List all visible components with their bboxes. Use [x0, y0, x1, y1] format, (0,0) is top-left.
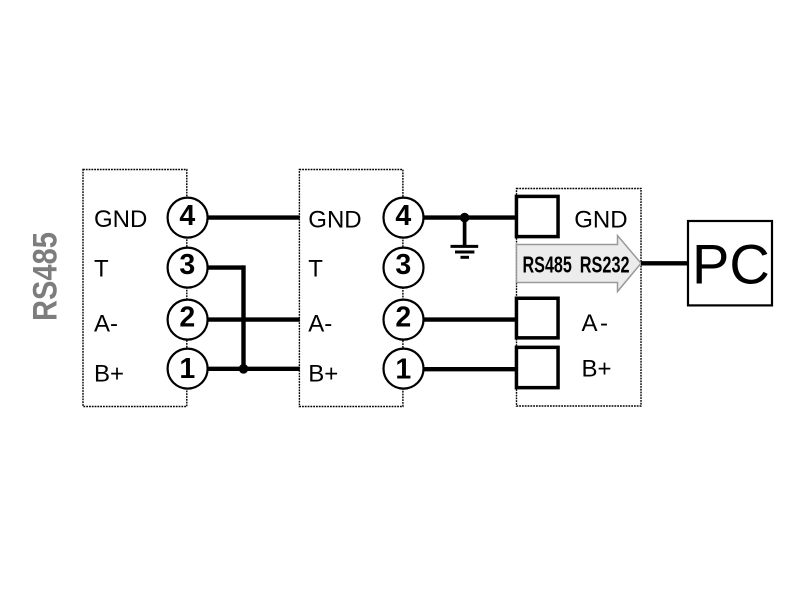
wire J1 pin4 to J2 GND: [206, 215, 300, 219]
svg-text:2: 2: [179, 301, 195, 333]
svg-text:A-: A-: [308, 311, 332, 338]
svg-text:1: 1: [395, 354, 411, 386]
wire J2 pin4 to converter GND pad: [422, 215, 517, 219]
svg-text:3: 3: [395, 249, 411, 281]
svg-text:3: 3: [179, 249, 195, 281]
svg-text:GND: GND: [574, 207, 627, 234]
svg-text:B+: B+: [582, 356, 612, 383]
wire J1 pin2 to J2 A-: [206, 317, 300, 321]
junction dot on B+ net: [239, 364, 249, 374]
pin circle J1-3: [168, 248, 208, 288]
svg-text:RS485: RS485: [26, 232, 64, 321]
svg-text:GND: GND: [308, 207, 361, 234]
svg-text:4: 4: [179, 200, 195, 232]
junction dot at ground tap: [460, 213, 470, 223]
svg-text:2: 2: [395, 301, 411, 333]
wire J2 pin1 to converter B+ pad: [422, 367, 517, 371]
svg-text:B+: B+: [308, 361, 338, 388]
PC box: [688, 221, 772, 305]
connector J2 (RS485 device 2, dashed outline): [299, 170, 403, 407]
pin circle J2-4: [384, 198, 424, 238]
svg-text:RS485: RS485: [523, 252, 573, 278]
pin circle J1-4: [168, 198, 208, 238]
converter B+ terminal pad: [516, 347, 558, 387]
svg-text:PC: PC: [692, 232, 770, 295]
converter GND terminal pad: [516, 196, 558, 236]
svg-text:GND: GND: [94, 206, 147, 233]
svg-text:A-: A-: [94, 311, 118, 338]
svg-text:A-: A-: [582, 310, 611, 337]
wire J1 pin1 to J2 B+: [206, 367, 300, 371]
converter module (dashed outline): [517, 189, 642, 407]
wire J2 pin2 to converter A- pad: [422, 317, 517, 321]
svg-text:T: T: [94, 256, 109, 283]
wire converter to PC: [641, 261, 689, 265]
svg-text:4: 4: [395, 200, 411, 232]
svg-text:T: T: [308, 256, 323, 283]
svg-text:B+: B+: [94, 361, 124, 388]
connector J1 (RS485 device 1, dashed outline): [83, 170, 187, 407]
wire J1 pin3 vertical down to B+ net: [241, 265, 245, 368]
wire J1 pin3 horizontal: [206, 265, 244, 269]
pin circle J2-1: [384, 349, 424, 389]
pin circle J1-1: [168, 349, 208, 389]
pin circle J1-2: [168, 300, 208, 340]
pin circle J2-3: [384, 248, 424, 288]
RS485 to RS232 converter arrow: [517, 236, 642, 292]
svg-text:RS232: RS232: [580, 252, 630, 278]
pin circle J2-2: [384, 300, 424, 340]
svg-text:1: 1: [179, 353, 195, 385]
converter A- terminal pad: [516, 298, 558, 338]
ground: [451, 218, 479, 258]
